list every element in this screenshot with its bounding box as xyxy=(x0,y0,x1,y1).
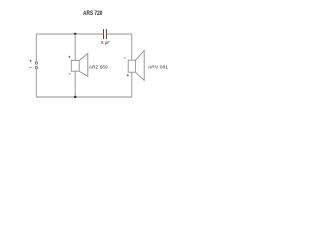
speaker LS2 cone xyxy=(135,51,144,81)
wire top right segment xyxy=(107,33,132,35)
wire left speaker lower xyxy=(74,71,76,97)
svg-text:ARV 081: ARV 081 xyxy=(148,65,169,70)
speaker LS2 ARV 081 body xyxy=(128,60,135,72)
wire right lower (speaker to bottom wire) xyxy=(131,72,133,97)
wire left upper (top wire to + terminal) xyxy=(35,34,37,62)
plus mark speaker LS2 xyxy=(127,74,129,76)
speaker LS1 ARZ 669 body xyxy=(71,60,79,71)
wire left speaker upper xyxy=(74,34,76,60)
wire left lower (- terminal to bottom wire) xyxy=(35,69,37,97)
svg-text:ARZ 669: ARZ 669 xyxy=(89,65,108,70)
node junction top (left speaker branch) xyxy=(74,33,76,35)
svg-text:ARS 720: ARS 720 xyxy=(83,10,103,17)
capacitor C1 8uF plates xyxy=(102,29,105,39)
wire right upper (cap to speaker) xyxy=(131,34,133,60)
minus mark speaker LS2 xyxy=(124,57,126,59)
svg-text:8 µF: 8 µF xyxy=(101,40,110,45)
speaker LS1 cone xyxy=(79,54,88,77)
minus sign label input xyxy=(29,66,31,68)
terminal - (input) xyxy=(35,67,37,69)
wire top left segment xyxy=(36,33,103,35)
terminal + (input) xyxy=(35,62,37,64)
wire bottom xyxy=(36,96,132,98)
plus sign label input xyxy=(30,60,32,62)
node junction bottom (left speaker branch) xyxy=(74,96,76,98)
minus mark speaker LS1 xyxy=(69,73,71,75)
plus mark speaker LS1 xyxy=(68,56,70,58)
